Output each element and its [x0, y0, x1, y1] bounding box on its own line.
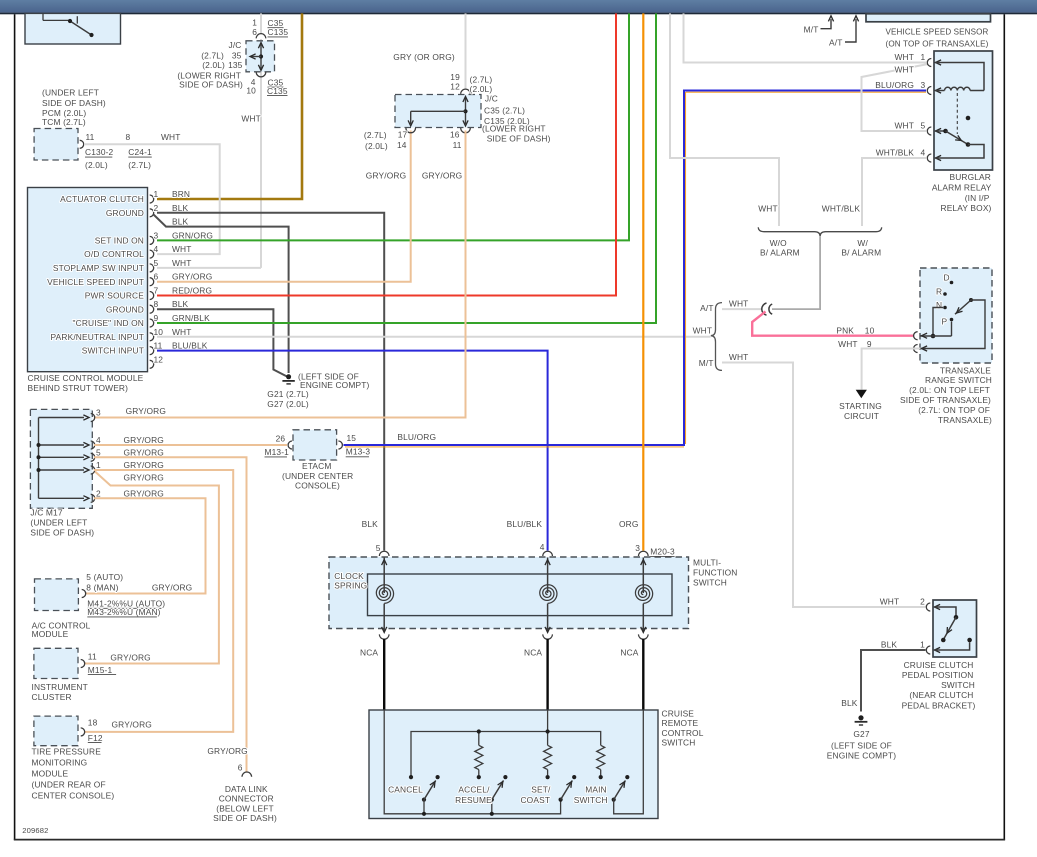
wire WHT/BLK relay pin4 to W/ alarm branch [862, 158, 926, 226]
svg-text:RELAY BOX): RELAY BOX) [941, 203, 992, 213]
svg-text:4: 4 [921, 148, 926, 158]
svg-text:MULTI-: MULTI- [693, 558, 721, 568]
svg-text:(2.0L): (2.0L) [85, 160, 108, 170]
cruise module pin 11 [150, 347, 154, 355]
svg-text:209682: 209682 [22, 826, 48, 835]
wire WHT pin5 from J/C above [157, 267, 261, 269]
resistors [475, 745, 483, 769]
svg-text:BLK: BLK [172, 217, 189, 227]
cruise control module (behind strut tower) [28, 188, 148, 372]
wire GRY/ORG pin6 from J/C [157, 131, 411, 282]
svg-text:ALARM RELAY: ALARM RELAY [932, 183, 992, 193]
svg-text:WHT: WHT [894, 121, 914, 131]
svg-text:3: 3 [96, 408, 101, 418]
svg-text:PARK/NEUTRAL INPUT: PARK/NEUTRAL INPUT [51, 332, 144, 342]
svg-text:REMOTE: REMOTE [662, 718, 699, 728]
stoplamp switch (top left, cut off) [25, 13, 121, 44]
svg-text:WHT: WHT [880, 597, 900, 607]
svg-text:M/T: M/T [804, 25, 819, 35]
svg-text:F12: F12 [88, 733, 103, 743]
diagram frame border [14, 14, 16, 840]
svg-text:VEHICLE SPEED INPUT: VEHICLE SPEED INPUT [47, 277, 144, 287]
J/C M17 pin 1 [39, 469, 85, 471]
svg-text:11: 11 [453, 140, 462, 150]
svg-text:BLK: BLK [172, 299, 189, 309]
svg-text:D: D [944, 273, 950, 283]
svg-text:GRY/ORG: GRY/ORG [124, 447, 164, 457]
svg-text:ACCEL/: ACCEL/ [458, 785, 490, 795]
svg-text:WHT: WHT [693, 325, 713, 335]
wire WHT M/T branch to cruise clutch pedal switch [722, 363, 926, 608]
svg-text:18: 18 [88, 718, 98, 728]
svg-text:PNK: PNK [836, 326, 854, 336]
svg-text:(IN I/P: (IN I/P [965, 193, 990, 203]
cruise module pin 7 [150, 292, 154, 300]
svg-text:(NEAR CLUTCH: (NEAR CLUTCH [909, 690, 973, 700]
svg-text:9: 9 [154, 313, 159, 323]
clock spring path 4 with coil [543, 551, 553, 556]
svg-text:(2.0L: ON TOP LEFT: (2.0L: ON TOP LEFT [909, 385, 990, 395]
svg-text:INSTRUMENT: INSTRUMENT [32, 682, 88, 692]
svg-text:SWITCH: SWITCH [693, 578, 727, 588]
svg-text:CANCEL: CANCEL [388, 785, 423, 795]
svg-text:BLK: BLK [841, 698, 858, 708]
pedal switch internals [934, 607, 956, 616]
svg-text:M13-3: M13-3 [346, 447, 371, 457]
svg-text:(LEFT SIDE OF: (LEFT SIDE OF [831, 740, 892, 750]
svg-text:(ON TOP OF TRANSAXLE): (ON TOP OF TRANSAXLE) [886, 39, 989, 49]
svg-text:GRY (OR ORG): GRY (OR ORG) [393, 52, 455, 62]
svg-text:10: 10 [154, 327, 164, 337]
svg-text:2: 2 [154, 203, 159, 213]
svg-text:BLK: BLK [881, 640, 898, 650]
svg-text:GRY/ORG: GRY/ORG [124, 488, 164, 498]
svg-text:135: 135 [228, 60, 243, 70]
svg-text:CONNECTOR: CONNECTOR [219, 794, 274, 804]
wire GRY/ORG M17 pin2 to A/C control module [85, 498, 206, 593]
svg-text:11: 11 [88, 652, 97, 662]
svg-text:M/T: M/T [699, 358, 714, 368]
wire from alarm brace down to connector [772, 236, 820, 309]
svg-text:8: 8 [126, 132, 131, 142]
wire GRY (OR ORG) from top [465, 13, 467, 89]
cruise module pin 10 [150, 333, 154, 341]
svg-text:B/ ALARM: B/ ALARM [760, 247, 800, 257]
svg-text:TCM (2.7L): TCM (2.7L) [42, 117, 86, 127]
svg-text:7: 7 [154, 286, 159, 296]
svg-text:16: 16 [450, 130, 460, 140]
svg-text:WHT: WHT [729, 352, 749, 362]
wire WHT pin10 to A/T-M/T brace [157, 336, 711, 338]
svg-text:TRANSAXLE): TRANSAXLE) [938, 415, 992, 425]
svg-text:WHT: WHT [894, 65, 914, 75]
wire BLK pin2 to clock spring pin 5 [157, 213, 384, 551]
svg-text:GRY/ORG: GRY/ORG [207, 746, 247, 756]
svg-text:A/T: A/T [700, 303, 713, 313]
svg-text:GRY/ORG: GRY/ORG [112, 720, 152, 730]
starting circuit arrow [856, 390, 867, 399]
ETACM (under center console) [293, 430, 337, 460]
cruise clutch pedal position switch [933, 600, 977, 657]
internal bus and wires [384, 710, 560, 814]
svg-text:BLK: BLK [172, 203, 189, 213]
svg-text:SIDE OF DASH): SIDE OF DASH) [179, 80, 243, 90]
svg-text:SIDE OF TRANSAXLE): SIDE OF TRANSAXLE) [900, 395, 991, 405]
clock spring path 3 with coil [639, 551, 649, 556]
svg-text:NCA: NCA [524, 647, 542, 657]
svg-text:BLK: BLK [362, 519, 379, 529]
wire WHT A/T branch [722, 308, 762, 310]
wire GRN/BLK pin9 up [157, 13, 656, 323]
svg-text:(2.7L: ON TOP OF: (2.7L: ON TOP OF [918, 405, 990, 415]
range switch pin 9 [914, 345, 918, 353]
clock spring outer (dashed) [329, 557, 689, 629]
vehicle speed sensor (on top of transaxle) [866, 14, 991, 22]
svg-text:5: 5 [376, 543, 381, 553]
svg-text:(2.0L): (2.0L) [365, 141, 388, 151]
svg-text:C24-1: C24-1 [128, 147, 152, 157]
main switch connection to right wire [614, 710, 644, 814]
svg-text:(2.7L): (2.7L) [201, 50, 224, 60]
svg-text:NCA: NCA [620, 647, 638, 657]
svg-text:M15-1: M15-1 [88, 665, 113, 675]
wire GRY/ORG M17 pin5 to data link connector [94, 457, 247, 772]
connector arc C35/C135 upper [256, 34, 266, 39]
svg-text:GRY/ORG: GRY/ORG [124, 435, 164, 445]
svg-text:GRY/ORG: GRY/ORG [422, 171, 462, 181]
svg-text:1: 1 [154, 189, 159, 199]
svg-text:15: 15 [347, 433, 357, 443]
svg-text:WHT: WHT [172, 258, 192, 268]
svg-text:11: 11 [86, 132, 95, 142]
svg-text:WHT: WHT [894, 52, 914, 62]
svg-text:G27 (2.0L): G27 (2.0L) [267, 399, 309, 409]
svg-text:CONTROL: CONTROL [662, 728, 704, 738]
cruise module pin 12 [150, 360, 154, 368]
svg-text:PWR SOURCE: PWR SOURCE [85, 291, 144, 301]
svg-text:C135: C135 [267, 86, 288, 96]
svg-text:ENGINE COMPT): ENGINE COMPT) [827, 751, 896, 761]
relay internals: coil and switch [935, 63, 984, 91]
svg-text:C35 (2.7L): C35 (2.7L) [484, 105, 525, 115]
svg-text:M13-1: M13-1 [265, 447, 290, 457]
svg-text:ETACM: ETACM [302, 461, 331, 471]
svg-text:SIDE OF DASH): SIDE OF DASH) [487, 134, 551, 144]
svg-text:MODULE: MODULE [32, 629, 69, 639]
junction connector J/C 35/135 (lower right side of dash) [246, 41, 275, 72]
svg-text:1: 1 [252, 17, 257, 27]
burglar alarm relay (in I/P relay box) [934, 51, 993, 170]
svg-text:(2.7L): (2.7L) [470, 74, 493, 84]
svg-text:SET/: SET/ [531, 785, 551, 795]
svg-text:WHT: WHT [241, 113, 261, 123]
wire BLK (second ground wire) to G21/G27 [154, 215, 289, 374]
svg-text:WHT: WHT [729, 299, 749, 309]
svg-text:5: 5 [96, 447, 101, 457]
wire WHT relay pin5 jumper to pin1 [862, 64, 929, 131]
svg-text:PEDAL BRACKET): PEDAL BRACKET) [902, 700, 976, 710]
svg-text:WHT: WHT [172, 244, 192, 254]
wire WHT relay pin1 up (to VSS) [684, 13, 927, 62]
svg-text:35: 35 [232, 50, 242, 60]
svg-text:2: 2 [920, 597, 925, 607]
svg-text:5: 5 [154, 258, 159, 268]
svg-text:P: P [942, 316, 948, 326]
svg-text:GRY/ORG: GRY/ORG [366, 171, 406, 181]
svg-text:BLU/ORG: BLU/ORG [875, 80, 914, 90]
svg-text:N: N [936, 300, 942, 310]
svg-text:(2.0L): (2.0L) [202, 60, 225, 70]
svg-text:A/T: A/T [829, 38, 842, 48]
svg-text:M20-3: M20-3 [650, 547, 675, 557]
wire PNK to transaxle range switch pin 10 [752, 312, 913, 336]
svg-text:BEHIND STRUT TOWER): BEHIND STRUT TOWER) [28, 383, 129, 393]
svg-text:WHT/BLK: WHT/BLK [822, 203, 861, 213]
wire GRY/ORG M17 pin1 to tire pressure module [84, 470, 233, 732]
svg-text:1: 1 [96, 460, 101, 470]
wire GRY/ORG (M17 pin1 second) to instrument cluster [84, 472, 219, 664]
svg-text:J/C M17: J/C M17 [30, 508, 62, 518]
svg-text:BLU/ORG: BLU/ORG [397, 432, 436, 442]
cruise module pin 6 [150, 278, 154, 286]
svg-text:(2.0L): (2.0L) [470, 84, 493, 94]
svg-text:1: 1 [921, 52, 926, 62]
cruise module pin 9 [150, 319, 154, 327]
svg-text:PEDAL POSITION: PEDAL POSITION [902, 670, 974, 680]
svg-text:(UNDER LEFT: (UNDER LEFT [42, 88, 99, 98]
svg-text:6: 6 [238, 763, 243, 773]
switch blades CANCEL / ACCEL-RESUME / SET-COAST / MAIN [409, 775, 413, 779]
svg-text:SIDE OF DASH): SIDE OF DASH) [213, 813, 277, 823]
window title bar [0, 0, 1037, 13]
cruise remote control switch [369, 710, 658, 819]
svg-text:26: 26 [276, 433, 286, 443]
svg-text:WHT: WHT [172, 327, 192, 337]
wire GRY/ORG M17 pin4 to ETACM pin 26 [94, 444, 287, 446]
svg-text:12: 12 [154, 354, 164, 364]
svg-text:SIDE OF DASH): SIDE OF DASH) [42, 98, 106, 108]
svg-text:11: 11 [154, 341, 163, 351]
wire WHT PCM to cruise module pin 4 [84, 144, 220, 254]
cruise module pin 5 [150, 264, 154, 272]
svg-text:CRUISE: CRUISE [662, 708, 695, 718]
J/C M17 pin 2 [39, 497, 85, 499]
svg-text:3: 3 [154, 230, 159, 240]
brace W/O B/ALARM - W/ B/ALARM [758, 227, 882, 236]
svg-text:"CRUISE" IND ON: "CRUISE" IND ON [73, 318, 144, 328]
cruise module pin 1 [150, 195, 154, 203]
svg-text:SWITCH INPUT: SWITCH INPUT [82, 346, 144, 356]
svg-text:8 (MAN): 8 (MAN) [86, 583, 118, 593]
A/C control module [35, 579, 79, 611]
wire WHT from top into J/C [260, 13, 262, 33]
svg-text:SPRING: SPRING [334, 581, 367, 591]
svg-text:FUNCTION: FUNCTION [693, 568, 737, 578]
tire pressure monitoring module [34, 716, 78, 746]
svg-text:5 (AUTO): 5 (AUTO) [86, 572, 123, 582]
svg-text:COAST: COAST [520, 795, 550, 805]
svg-text:3: 3 [635, 543, 640, 553]
clock spring path 5 with coil [379, 551, 389, 556]
ground G27 (left side of engine compt) [858, 715, 863, 720]
relay pin 1 [927, 59, 931, 67]
svg-text:(2.7L): (2.7L) [128, 160, 151, 170]
svg-text:SIDE OF DASH): SIDE OF DASH) [30, 528, 94, 538]
svg-text:3: 3 [921, 80, 926, 90]
cruise module pin 3 [150, 236, 154, 244]
svg-text:8: 8 [154, 299, 159, 309]
svg-text:SWITCH: SWITCH [941, 680, 975, 690]
svg-text:2: 2 [96, 488, 101, 498]
relay pin 4 [927, 154, 931, 162]
wire BLK pin8 to ground [157, 309, 287, 376]
svg-text:4: 4 [154, 244, 159, 254]
wire ORG from top to clock spring pin 3 [642, 13, 644, 550]
svg-text:1: 1 [920, 640, 925, 650]
svg-text:M43-2%%U (MAN): M43-2%%U (MAN) [87, 607, 160, 617]
svg-text:GRY/ORG: GRY/ORG [172, 272, 212, 282]
svg-text:SWITCH: SWITCH [574, 795, 608, 805]
svg-text:CONSOLE): CONSOLE) [295, 481, 340, 491]
svg-text:B/ ALARM: B/ ALARM [841, 247, 881, 257]
svg-text:ENGINE COMPT): ENGINE COMPT) [300, 380, 369, 390]
svg-text:6: 6 [154, 272, 159, 282]
svg-text:SWITCH: SWITCH [662, 738, 696, 748]
svg-text:BRN: BRN [172, 189, 190, 199]
svg-text:19: 19 [450, 72, 460, 82]
svg-text:MODULE: MODULE [32, 769, 69, 779]
svg-text:R: R [936, 287, 942, 297]
svg-text:BLU/BLK: BLU/BLK [172, 341, 208, 351]
wire BLU/ORG ETACM pin15 to burglar alarm relay pin 3 [344, 91, 927, 446]
svg-text:O/D CONTROL: O/D CONTROL [84, 249, 144, 259]
svg-text:GROUND: GROUND [106, 304, 144, 314]
wire BLK pedal switch pin1 to ground G27 [861, 650, 926, 712]
ground G21/G27 (left side of engine compt) [286, 374, 291, 379]
wire BLU/BLK pin11 to clock spring pin 4 [157, 351, 548, 551]
inline connector (( [762, 303, 767, 315]
cruise module pin 8 [150, 305, 154, 313]
svg-text:WHT/BLK: WHT/BLK [876, 148, 915, 158]
svg-text:10: 10 [865, 326, 875, 336]
svg-text:STOPLAMP SW INPUT: STOPLAMP SW INPUT [53, 263, 144, 273]
svg-text:C130-2: C130-2 [85, 147, 114, 157]
svg-text:(2.7L): (2.7L) [364, 130, 387, 140]
svg-text:ACTUATOR CLUTCH: ACTUATOR CLUTCH [60, 194, 144, 204]
svg-text:G21 (2.7L): G21 (2.7L) [267, 389, 309, 399]
svg-text:BLU/BLK: BLU/BLK [507, 519, 543, 529]
svg-text:WHT: WHT [758, 203, 778, 213]
svg-text:NCA: NCA [360, 647, 378, 657]
instrument cluster [34, 648, 78, 678]
range switch pin 10 [914, 332, 918, 340]
svg-text:CLOCK: CLOCK [334, 571, 364, 581]
svg-text:TRANSAXLE: TRANSAXLE [940, 365, 991, 375]
svg-text:RED/ORG: RED/ORG [172, 286, 212, 296]
svg-text:TIRE PRESSURE: TIRE PRESSURE [32, 747, 102, 757]
wire GRY/ORG to J/C M17 pin 3 [94, 131, 466, 418]
junction connector J/C C35(2.7L)/C135(2.0L) [395, 95, 481, 128]
svg-text:(UNDER REAR OF: (UNDER REAR OF [32, 779, 106, 789]
svg-text:ORG: ORG [619, 519, 639, 529]
svg-text:CRUISE CLUTCH: CRUISE CLUTCH [904, 660, 974, 670]
svg-text:BURGLAR: BURGLAR [949, 172, 991, 182]
svg-text:4: 4 [540, 542, 545, 552]
wire GRN/ORG pin3 up [157, 13, 629, 240]
svg-text:C135: C135 [268, 27, 289, 37]
wire RED/ORG pin7 up [157, 13, 616, 295]
svg-text:(BELOW LEFT: (BELOW LEFT [216, 804, 274, 814]
svg-text:10: 10 [246, 86, 256, 96]
svg-text:WHT: WHT [161, 132, 181, 142]
svg-text:CLUSTER: CLUSTER [32, 692, 72, 702]
svg-text:WHT: WHT [838, 339, 858, 349]
cruise module pin 2 [150, 209, 154, 217]
J/C M17 pin 5 [39, 456, 85, 458]
svg-text:14: 14 [397, 140, 407, 150]
brace A/T-M/T on WHT park/neutral wire [711, 303, 722, 371]
wire WHT range switch pin9 to starting circuit [862, 349, 921, 390]
svg-text:VEHICLE SPEED SENSOR: VEHICLE SPEED SENSOR [886, 26, 989, 36]
wire BRN from cruise module pin 1 up [157, 13, 302, 199]
svg-text:GRY/ORG: GRY/ORG [110, 653, 150, 663]
svg-text:CIRCUIT: CIRCUIT [844, 411, 879, 421]
svg-text:17: 17 [398, 130, 408, 140]
svg-text:MONITORING: MONITORING [32, 758, 88, 768]
svg-text:GRY/ORG: GRY/ORG [124, 460, 164, 470]
svg-text:(UNDER CENTER: (UNDER CENTER [282, 471, 353, 481]
svg-text:(UNDER LEFT: (UNDER LEFT [30, 518, 87, 528]
svg-text:CRUISE CONTROL MODULE: CRUISE CONTROL MODULE [28, 373, 144, 383]
junction connector J/C M17 (under left side of dash) [30, 409, 92, 508]
svg-text:GROUND: GROUND [106, 208, 144, 218]
svg-text:GRY/ORG: GRY/ORG [124, 473, 164, 483]
relay pin 5 [927, 127, 931, 135]
svg-text:5: 5 [921, 121, 926, 131]
svg-text:GRN/ORG: GRN/ORG [172, 230, 213, 240]
svg-text:4: 4 [96, 435, 101, 445]
svg-text:GRY/ORG: GRY/ORG [152, 583, 192, 593]
svg-text:MAIN: MAIN [585, 785, 607, 795]
svg-text:G27: G27 [853, 729, 869, 739]
svg-text:SET IND ON: SET IND ON [95, 236, 144, 246]
multifunction switch inner box [368, 574, 673, 616]
svg-text:6: 6 [252, 27, 257, 37]
cruise module pin 4 [150, 250, 154, 258]
svg-text:GRY/ORG: GRY/ORG [126, 406, 166, 416]
svg-text:(LOWER RIGHT: (LOWER RIGHT [482, 123, 546, 133]
svg-text:J/C: J/C [228, 40, 241, 50]
svg-text:STARTING: STARTING [839, 401, 882, 411]
svg-text:12: 12 [450, 82, 460, 92]
svg-text:J/C: J/C [485, 94, 498, 104]
svg-text:RESUME: RESUME [455, 795, 492, 805]
wire WHT from top to W/O alarm branch [670, 13, 779, 226]
J/C M17 pin 3 [39, 417, 85, 419]
svg-text:GRN/BLK: GRN/BLK [172, 313, 210, 323]
svg-text:CENTER CONSOLE): CENTER CONSOLE) [32, 790, 115, 800]
J/C M17 pin 4 [39, 444, 85, 446]
range switch internals [933, 308, 943, 337]
relay pin 3 [927, 87, 931, 95]
transaxle range switch [920, 268, 992, 363]
svg-text:RANGE SWITCH: RANGE SWITCH [925, 375, 992, 385]
